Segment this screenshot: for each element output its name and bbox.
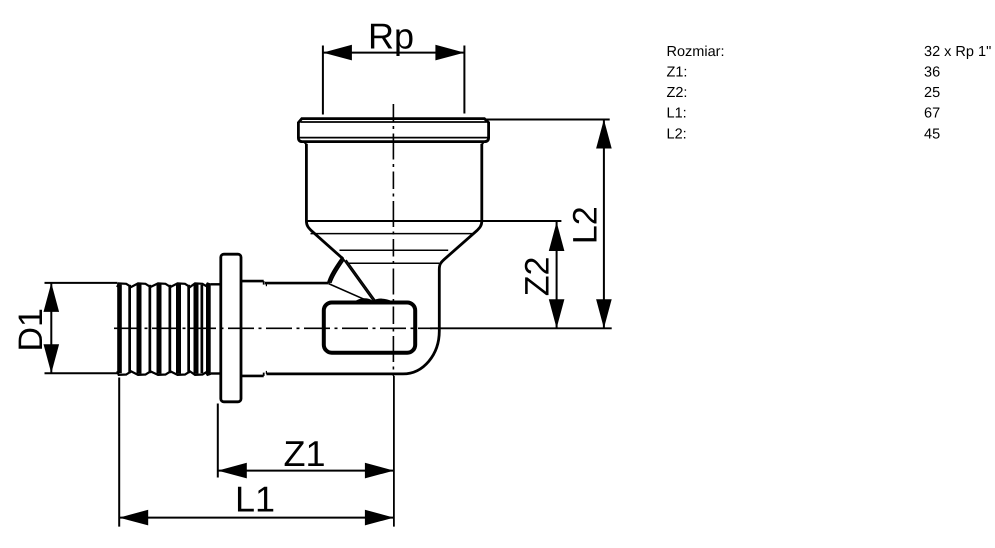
svg-text:32 x Rp 1": 32 x Rp 1": [924, 44, 991, 60]
svg-text:25: 25: [924, 85, 940, 101]
svg-text:Z1: Z1: [283, 433, 325, 474]
svg-text:Z2:: Z2:: [667, 85, 688, 101]
svg-text:45: 45: [924, 126, 940, 142]
svg-text:L2:: L2:: [667, 126, 687, 142]
svg-text:Rozmiar:: Rozmiar:: [667, 44, 725, 60]
svg-text:67: 67: [924, 106, 940, 122]
svg-text:Rp: Rp: [368, 16, 414, 57]
svg-text:Z1:: Z1:: [667, 65, 688, 81]
svg-text:D1: D1: [12, 308, 50, 351]
svg-text:L2: L2: [566, 206, 604, 244]
svg-text:L1:: L1:: [667, 106, 687, 122]
svg-text:L1: L1: [235, 479, 275, 520]
svg-text:Z2: Z2: [519, 257, 557, 297]
svg-text:36: 36: [924, 65, 940, 81]
